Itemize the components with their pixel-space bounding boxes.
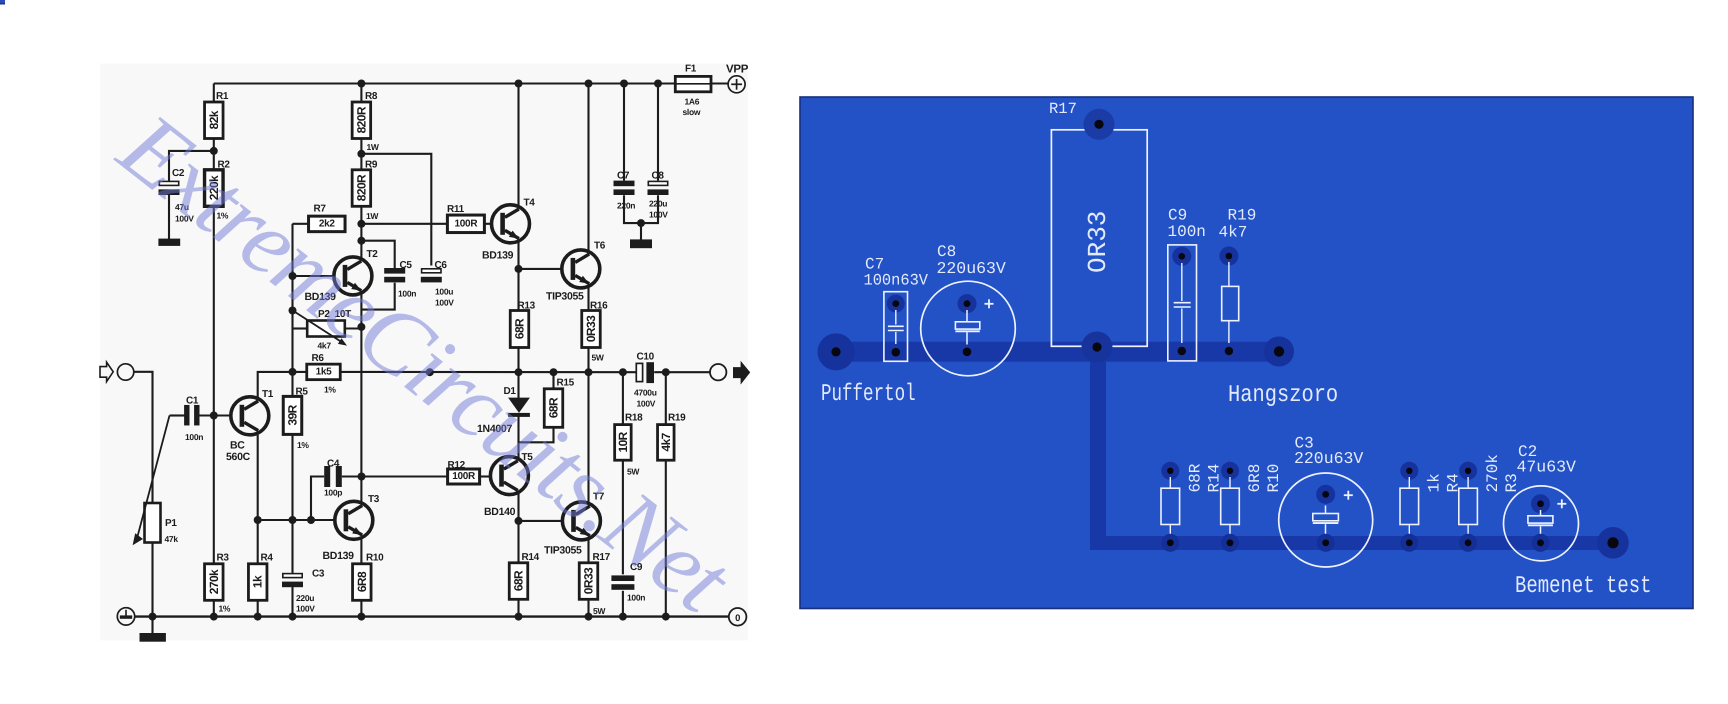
PCB R19 outline — [1222, 286, 1239, 320]
junction T2 collector-C5 tap — [357, 237, 365, 245]
wire R7 left lead — [293, 223, 309, 225]
svg-text:820R: 820R — [354, 106, 368, 133]
resistor R7 body 2k2 — [309, 216, 346, 232]
capacitor C9 plates — [611, 575, 634, 581]
PCB C9 top pad — [1172, 247, 1191, 266]
wire T5 emitter lead — [517, 442, 519, 459]
wire lower node to T3 base — [258, 519, 335, 521]
wire C10 right to output terminal — [654, 371, 710, 373]
capacitor C2 plates — [159, 181, 178, 185]
PCB resistor R17 outline — [1051, 130, 1147, 346]
wire T2 emitter down to T3 collector — [360, 293, 362, 503]
PCB C3 plus mark — [1344, 494, 1353, 496]
svg-text:47u63V: 47u63V — [1517, 458, 1577, 477]
PCB resistor R3 top pad — [1459, 462, 1477, 480]
PCB C9 bottom pad — [1174, 343, 1190, 359]
svg-text:1k5: 1k5 — [316, 366, 333, 377]
capacitor C6 plates — [422, 269, 441, 273]
junction T1 base node — [210, 412, 218, 420]
transistor T5 symbol — [490, 457, 528, 495]
wire R5 bottom to T1 collector node — [291, 434, 293, 574]
wire R3 to ground rail — [213, 600, 215, 617]
junction ground rail R14 — [515, 613, 523, 621]
wire R4 top lead — [257, 520, 259, 564]
svg-text:C7: C7 — [617, 171, 630, 182]
wire D1 anode lead — [517, 372, 519, 398]
svg-text:100n63V: 100n63V — [864, 272, 929, 290]
wire R18 top lead — [622, 372, 624, 424]
svg-text:BD139: BD139 — [482, 250, 514, 262]
svg-text:C8: C8 — [652, 171, 665, 182]
resistor R11 body 100R — [447, 215, 484, 233]
PCB R10 outline — [1221, 488, 1240, 524]
resistor R16 body 0R33 — [582, 311, 601, 348]
svg-text:100p: 100p — [324, 488, 342, 498]
svg-text:R1: R1 — [216, 91, 229, 102]
svg-text:TIP3055: TIP3055 — [546, 291, 584, 303]
svg-text:R3: R3 — [217, 553, 230, 564]
wire C2 to chassis ground — [168, 195, 170, 239]
capacitor C1 plates — [184, 405, 189, 426]
junction T2 emitter-P2 node — [357, 323, 365, 331]
wire T5 collector to lower node — [517, 492, 519, 521]
svg-text:Puffertol: Puffertol — [821, 381, 916, 408]
potentiometer P1 wiper arrow — [138, 416, 170, 537]
svg-text:1k: 1k — [251, 575, 265, 588]
wire R19 to ground rail — [665, 460, 667, 617]
resistor R5 body 39R — [283, 396, 302, 434]
PCB pad input left (Puffertol) — [818, 333, 855, 370]
transistor T7 symbol — [562, 502, 600, 540]
wire R4 to ground rail — [257, 563, 259, 565]
PCB trace top horizontal — [836, 342, 1279, 362]
PCB trace vertical — [1090, 351, 1106, 550]
svg-text:47k: 47k — [165, 534, 179, 544]
PCB R4 leads — [1408, 477, 1410, 488]
wire input terminal to P1 — [133, 372, 152, 503]
junction output-R16-T7 collector — [585, 368, 593, 376]
junction C7-C8 ground node — [637, 219, 645, 227]
PCB trace bottom horizontal — [1090, 536, 1613, 550]
decorative blue chip top-left corner — [0, 0, 5, 5]
svg-text:R19: R19 — [668, 413, 686, 424]
ground rail — [135, 615, 729, 617]
junction ground rail C3 — [289, 613, 297, 621]
PCB R10 bottom pad — [1221, 534, 1239, 552]
svg-text:Bemenet test: Bemenet test — [1515, 573, 1652, 600]
svg-text:C9: C9 — [1168, 207, 1187, 225]
svg-text:C3: C3 — [312, 568, 325, 579]
PCB R14 outline — [1161, 488, 1180, 524]
PCB R17 top pad — [1084, 109, 1115, 140]
svg-text:100V: 100V — [296, 604, 315, 614]
junction T4 collector rail tap — [515, 80, 523, 88]
wire P1 bottom to ground rail — [151, 543, 153, 617]
wire C1 left lead — [170, 414, 185, 416]
PCB R4 outline — [1400, 488, 1419, 524]
junction C8 rail tap — [654, 80, 662, 88]
svg-text:R19: R19 — [1228, 207, 1257, 225]
svg-text:270k: 270k — [207, 569, 221, 594]
PCB capacitor C2 outline circle — [1504, 486, 1579, 561]
potentiometer P2 wiper arrow — [293, 310, 342, 341]
svg-text:T4: T4 — [524, 198, 536, 209]
wire R9 bottom to VAS node — [360, 206, 362, 241]
PCB C2 bottom pad — [1532, 534, 1550, 552]
svg-text:VPP: VPP — [726, 64, 749, 76]
wire T6 emitter to R16 — [587, 286, 589, 310]
svg-text:BC: BC — [230, 440, 245, 452]
wire stem to chassis ground — [640, 223, 642, 240]
PCB board — [800, 97, 1693, 609]
resistor R12 body 100R — [448, 469, 480, 484]
wire R12 to T5 base — [480, 475, 491, 477]
svg-text:100n: 100n — [1168, 223, 1206, 241]
svg-text:100R: 100R — [455, 218, 479, 229]
PCB C7 symbol — [895, 310, 897, 325]
PCB C2 symbol — [1540, 510, 1542, 516]
output arrow symbol — [733, 361, 750, 385]
svg-text:1%: 1% — [297, 440, 309, 450]
svg-text:T1: T1 — [262, 389, 274, 400]
zero-volt terminal circle — [729, 608, 747, 626]
junction output-R19 — [662, 368, 670, 376]
wire R8 column upper — [360, 84, 362, 103]
junction R6-R5 node — [289, 368, 297, 376]
svg-text:Hangszoro: Hangszoro — [1228, 382, 1338, 409]
VPP terminal circle — [728, 76, 745, 93]
svg-text:1k: 1k — [1425, 473, 1443, 492]
wire T6 collector from rail — [587, 84, 589, 252]
svg-text:100V: 100V — [637, 399, 656, 409]
PCB resistor R14 top pad — [1161, 462, 1179, 480]
svg-text:BD140: BD140 — [484, 506, 516, 518]
junction C6 bottom tap — [426, 368, 434, 376]
svg-text:R10: R10 — [366, 553, 384, 564]
wire T2 collector — [360, 241, 362, 260]
capacitor C5 plates — [384, 268, 405, 274]
PCB capacitor C9 outline — [1168, 245, 1197, 361]
wire R17 to ground rail — [587, 599, 589, 616]
wire T1 emitter to R6 — [258, 372, 307, 397]
PCB C7 bottom pad — [888, 344, 904, 360]
resistor R17 body 0R33 — [579, 563, 598, 600]
resistor R2 body 220k — [205, 170, 224, 207]
wire T4 emitter to R13 — [517, 241, 519, 311]
wire R8/R9 junction to C6 top — [361, 154, 431, 266]
svg-text:220n: 220n — [617, 201, 635, 211]
wire D1 cathode to T5 emitter — [519, 416, 554, 442]
resistor R19 body 4k7 — [658, 425, 675, 461]
transistor T4 symbol — [492, 205, 530, 243]
output terminal circle — [710, 364, 726, 380]
capacitor C10 plates — [636, 363, 642, 381]
resistor R8 body 820R — [352, 102, 371, 139]
svg-text:6R8: 6R8 — [1246, 464, 1264, 493]
svg-text:R17: R17 — [1049, 100, 1077, 118]
junction R5-C3-T3 base node — [289, 516, 297, 524]
svg-text:C10: C10 — [637, 352, 655, 363]
svg-text:OR33: OR33 — [1083, 211, 1113, 273]
wire C4 right lead node — [342, 475, 448, 477]
svg-text:0R33: 0R33 — [584, 315, 598, 342]
wire C9 to ground rail — [622, 591, 624, 617]
junction ground rail R3 — [210, 613, 218, 621]
PCB R3 leads — [1467, 477, 1469, 488]
svg-text:220u: 220u — [649, 199, 667, 209]
resistor R15 body 68R — [544, 389, 563, 428]
PCB C3 symbol — [1325, 506, 1327, 514]
junction T6 collector rail tap — [585, 80, 593, 88]
PCB pad output right (Hangszoro) — [1264, 337, 1294, 367]
svg-text:39R: 39R — [286, 404, 300, 425]
svg-text:6R8: 6R8 — [355, 571, 369, 592]
svg-text:1A6: 1A6 — [685, 97, 700, 107]
PCB C8 top pad — [958, 294, 977, 313]
svg-text:C4: C4 — [327, 459, 340, 470]
wire R15 top lead — [552, 372, 554, 389]
PCB C7 top pad — [887, 295, 905, 313]
wire R2 to T1 base junction — [213, 206, 215, 564]
wire fuse to VPP terminal — [711, 82, 728, 84]
PCB C3 bottom pad — [1317, 534, 1335, 552]
svg-text:4k7: 4k7 — [1219, 224, 1248, 242]
PCB R14 bottom pad — [1161, 534, 1179, 552]
junction C4 tap on base wire — [307, 516, 315, 524]
wire C2 branch — [169, 151, 214, 181]
junction ground rail C9 — [619, 613, 627, 621]
wire R14 to ground rail — [517, 599, 519, 616]
junction ground rail R17 — [585, 613, 593, 621]
junction output-R15 — [550, 368, 558, 376]
svg-text:0R33: 0R33 — [582, 567, 596, 594]
svg-text:5W: 5W — [592, 353, 605, 363]
PCB C9 symbol — [1181, 263, 1183, 301]
input arrow symbol — [100, 362, 113, 381]
PCB R19 leads — [1228, 262, 1230, 286]
junction T2 base tap — [289, 272, 297, 280]
potentiometer P2 body — [307, 321, 345, 337]
svg-text:68R: 68R — [513, 318, 527, 339]
wire C5 top branch — [361, 241, 394, 268]
wire R16 to output node — [587, 348, 589, 373]
resistor R9 body 820R — [352, 170, 371, 207]
wire R13 to output node — [517, 348, 519, 373]
capacitor C4 plates — [324, 466, 330, 487]
wire R10 to ground rail — [360, 600, 362, 617]
svg-text:1W: 1W — [366, 211, 379, 221]
transistor T6 symbol — [562, 250, 600, 288]
junction C7 rail tap — [620, 80, 628, 88]
wire T6 base — [519, 268, 562, 270]
junction C4-R12-T2emitter column — [358, 473, 366, 481]
svg-text:100n: 100n — [185, 432, 203, 442]
svg-text:R4: R4 — [261, 553, 274, 564]
wire P2 left lead — [293, 327, 309, 329]
wire C5 bottom to T2 emitter node — [361, 283, 394, 310]
ground terminal circle — [117, 608, 134, 625]
svg-text:C1: C1 — [186, 396, 199, 407]
wire T3 emitter to R10 — [360, 539, 362, 564]
PCB capacitor C3 outline circle — [1279, 473, 1373, 567]
junction output-R13-D1 — [515, 368, 523, 376]
PCB C8 plus mark — [985, 303, 994, 305]
diode D1 symbol — [508, 398, 530, 413]
junction ground rail R19 — [662, 613, 670, 621]
svg-text:0: 0 — [735, 613, 740, 624]
junction output-R18 — [619, 368, 627, 376]
wire R1 column upper — [213, 84, 215, 103]
wire VAS node to R11 — [361, 223, 447, 225]
svg-text:68R: 68R — [1186, 463, 1204, 492]
svg-text:slow: slow — [683, 107, 701, 117]
junction R9-R7-R11 node — [357, 220, 365, 228]
capacitor C8 plates — [648, 181, 667, 185]
input terminal circle — [117, 364, 133, 380]
svg-text:R8: R8 — [365, 91, 378, 102]
svg-text:R10: R10 — [1265, 464, 1283, 493]
PCB R3 bottom pad — [1459, 534, 1477, 552]
svg-text:560C: 560C — [226, 451, 251, 463]
junction R8 top — [357, 80, 365, 88]
wire R11 to T4 base — [485, 223, 493, 225]
svg-text:100u: 100u — [435, 287, 453, 297]
svg-text:C5: C5 — [400, 260, 413, 271]
wire C7 column upper — [623, 84, 625, 181]
PCB R14 leads — [1169, 477, 1171, 488]
junction R1-R2-C2 — [210, 147, 218, 155]
fuse F1 symbol — [675, 76, 711, 91]
svg-text:R18: R18 — [625, 413, 643, 424]
svg-text:R14: R14 — [522, 552, 540, 563]
PCB R19 bottom pad — [1221, 343, 1237, 359]
wire C3 to ground rail — [291, 587, 293, 617]
potentiometer P1 body — [145, 503, 161, 543]
wire C4 left lead to T3 base node — [311, 477, 324, 521]
svg-text:220u63V: 220u63V — [937, 259, 1006, 278]
PCB C8 bottom pad — [959, 344, 975, 360]
wire R14 top lead — [517, 521, 519, 563]
svg-text:R11: R11 — [447, 204, 465, 215]
wire R8 to R9 — [360, 138, 362, 170]
PCB resistor R4 top pad — [1400, 462, 1418, 480]
resistor R18 body 10R — [615, 425, 632, 461]
transistor T1 symbol — [231, 397, 269, 435]
PCB R4 bottom pad — [1400, 534, 1418, 552]
wire stem to chassis ground bottom — [151, 617, 153, 633]
wire R1 to R2 — [213, 138, 215, 170]
svg-text:100R: 100R — [452, 471, 476, 482]
chassis ground under C2 — [158, 239, 180, 246]
svg-text:T3: T3 — [368, 494, 380, 505]
wire P2 right lead — [345, 327, 362, 329]
junction ground rail P1 — [149, 613, 157, 621]
svg-text:1W: 1W — [367, 142, 380, 152]
svg-text:4700u: 4700u — [634, 388, 657, 398]
PCB R3 outline — [1459, 488, 1478, 524]
schematic panel background — [100, 64, 748, 641]
wire C1 right lead to T1 base — [199, 414, 231, 416]
svg-text:1%: 1% — [219, 604, 231, 614]
wire T7 emitter to R17 — [587, 538, 589, 563]
capacitor C3 plates — [283, 574, 302, 578]
wire T2 base — [293, 275, 335, 277]
resistor R10 body 6R8 — [353, 564, 372, 601]
chassis ground bottom left — [140, 633, 166, 642]
wire T4 collector from rail — [517, 84, 519, 208]
capacitor C7 plates — [614, 181, 635, 187]
junction T5 collector-R14-T7 base — [515, 517, 523, 525]
wire C7 bottom to ground node — [624, 195, 658, 223]
svg-text:P1: P1 — [165, 518, 177, 529]
svg-text:220u63V: 220u63V — [1294, 449, 1363, 468]
transistor T3 symbol — [335, 501, 373, 539]
resistor R4 body 1k — [248, 564, 267, 601]
svg-text:BD139: BD139 — [323, 550, 355, 562]
wire R19 top lead — [665, 372, 667, 424]
PCB resistor R19 top pad — [1219, 247, 1238, 266]
svg-text:220u: 220u — [296, 593, 314, 603]
PCB C2 top pad — [1531, 494, 1550, 513]
wire R7/R5 column — [291, 224, 293, 396]
chassis ground under C7 C8 — [630, 239, 652, 248]
wire T7 collector — [587, 372, 589, 503]
svg-text:68R: 68R — [512, 570, 526, 591]
PCB C3 top pad — [1316, 485, 1335, 504]
svg-text:100V: 100V — [649, 210, 668, 220]
PCB capacitor C7 outline — [884, 292, 908, 362]
svg-text:C6: C6 — [435, 260, 448, 271]
svg-text:4k7: 4k7 — [659, 432, 673, 451]
wire lower node to T7 base — [519, 520, 563, 522]
PCB R17 bottom pad — [1082, 332, 1113, 363]
PCB R10 leads — [1229, 477, 1231, 488]
svg-text:F1: F1 — [685, 64, 697, 75]
resistor R1 body 82k — [205, 102, 224, 139]
wire top supply rail — [214, 82, 676, 84]
PCB resistor R10 top pad — [1221, 462, 1239, 480]
PCB C8 symbol — [966, 310, 968, 322]
PCB pad bottom right (Bemenet) — [1597, 527, 1629, 559]
svg-text:1%: 1% — [324, 385, 336, 395]
junction ground rail R4 — [254, 613, 262, 621]
svg-text:R6: R6 — [312, 353, 325, 364]
wire C8 column upper — [657, 84, 659, 181]
wire R18 to C9 — [622, 460, 624, 574]
junction P2 left tap — [289, 307, 297, 315]
svg-text:270k: 270k — [1484, 454, 1502, 492]
svg-text:5W: 5W — [593, 606, 606, 616]
junction R8-R9-C6 node — [357, 150, 365, 158]
resistor R14 body 68R — [509, 563, 528, 600]
PCB C2 plus mark — [1557, 503, 1566, 505]
resistor R6 body 1k5 — [307, 364, 341, 380]
svg-text:820R: 820R — [354, 174, 368, 201]
wire T1 collector to lower node — [257, 435, 259, 520]
junction T1 collector-R4 — [254, 516, 262, 524]
resistor R13 body 68R — [510, 311, 529, 348]
PCB capacitor C8 outline circle — [921, 281, 1016, 376]
svg-text:R15: R15 — [557, 378, 575, 389]
svg-text:T6: T6 — [594, 241, 606, 252]
junction ground rail R10 — [357, 613, 365, 621]
transistor T2 symbol — [334, 257, 372, 295]
wire feedback line R6 to output — [340, 371, 635, 373]
resistor R3 body 270k — [205, 564, 224, 601]
junction T4emitter-T6base — [515, 265, 523, 273]
